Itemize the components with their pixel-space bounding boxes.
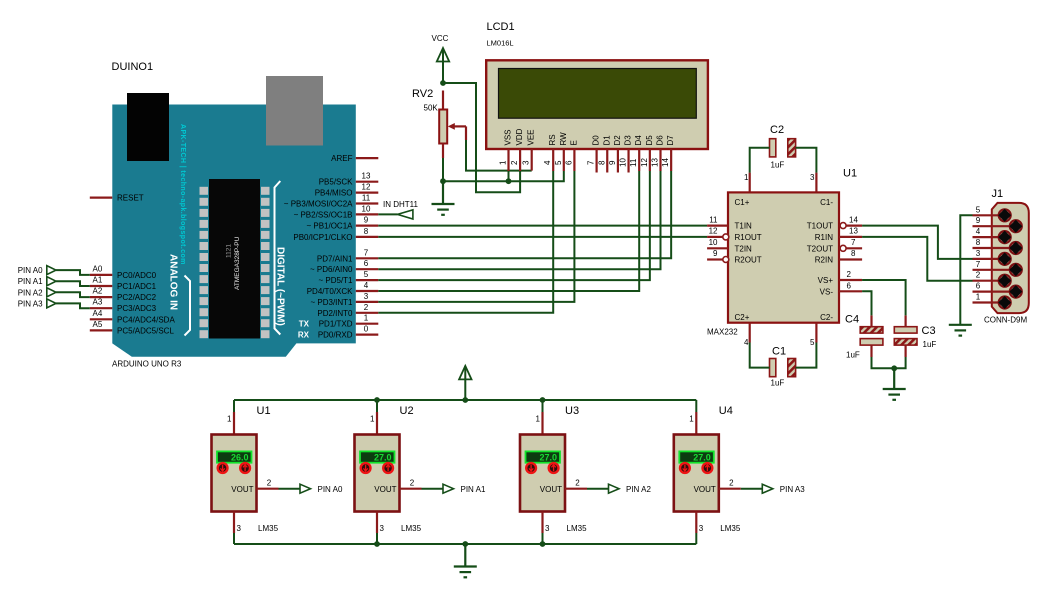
arduino board body (112, 105, 355, 357)
terminal PIN A1 (18, 277, 56, 287)
MAX232 pin 4 stub (749, 323, 751, 343)
svg-text:DUINO1: DUINO1 (112, 61, 154, 73)
LCD body (486, 60, 708, 149)
svg-text:D4: D4 (634, 135, 643, 146)
analog bracket (185, 276, 191, 336)
svg-text:13: 13 (362, 172, 371, 181)
svg-text:~ PD3/INT1: ~ PD3/INT1 (310, 298, 353, 307)
wire U1 VOUT to terminal (279, 488, 301, 490)
svg-text:LM35: LM35 (401, 524, 422, 533)
svg-text:PIN A1: PIN A1 (461, 485, 486, 494)
wire PIN A3 to arduino A3 (56, 303, 90, 308)
svg-text:RX: RX (298, 331, 310, 340)
LCD pin stubs (509, 149, 672, 173)
svg-text:11: 11 (362, 194, 371, 203)
svg-text:RESET: RESET (117, 194, 144, 203)
wire C4 bottom to ground node (872, 357, 895, 368)
terminal PIN A2 output (609, 484, 652, 494)
svg-text:VSS: VSS (504, 129, 513, 145)
DB9 pin stubs (973, 215, 1016, 302)
svg-text:27.0: 27.0 (693, 453, 711, 463)
svg-text:3: 3 (545, 524, 550, 533)
svg-text:D1: D1 (602, 135, 611, 146)
svg-text:1: 1 (689, 415, 694, 424)
digital bracket (275, 181, 281, 335)
svg-text:A1: A1 (93, 276, 103, 285)
svg-text:5: 5 (554, 160, 563, 165)
capacitor C4 (845, 314, 883, 360)
arduino right pin labels (284, 154, 353, 340)
arduino right pin stubs (356, 158, 379, 335)
svg-text:D7: D7 (666, 135, 675, 146)
svg-text:VOUT: VOUT (694, 485, 716, 494)
arduino left pin labels (117, 194, 175, 336)
svg-text:1: 1 (976, 293, 981, 302)
svg-text:3: 3 (522, 160, 531, 165)
power jack block (266, 76, 323, 146)
svg-text:12: 12 (709, 227, 718, 236)
svg-text:T1IN: T1IN (735, 222, 753, 231)
svg-text:E: E (569, 140, 578, 145)
svg-text:C1: C1 (772, 346, 786, 358)
svg-text:1: 1 (499, 160, 508, 165)
MAX232 pin number labels (709, 173, 815, 347)
wire MAX232 VS- to C4 (862, 291, 871, 315)
MAX232 pin 10 stub (707, 247, 728, 249)
node VCC junction at RV2 top (440, 80, 446, 86)
svg-text:DIGITAL (~PWM): DIGITAL (~PWM) (274, 247, 285, 326)
wire LM35 bottom ground bus (234, 543, 696, 545)
DB9 body (992, 203, 1029, 313)
svg-text:C2-: C2- (820, 313, 833, 322)
svg-text:PIN A1: PIN A1 (18, 277, 43, 286)
svg-text:6: 6 (564, 160, 573, 165)
svg-text:3: 3 (699, 524, 704, 533)
svg-text:A4: A4 (93, 309, 103, 318)
wire arduino pin5 to LCD D5 (378, 171, 650, 280)
MAX232 pin 13 stub (839, 236, 862, 238)
terminal PIN A1 output (443, 484, 486, 494)
svg-text:LM35: LM35 (258, 524, 279, 533)
wire arduino pin2 to LCD RS (378, 171, 553, 313)
svg-text:2: 2 (267, 479, 272, 488)
svg-text:8: 8 (851, 249, 856, 258)
svg-text:5: 5 (364, 270, 369, 279)
svg-text:8: 8 (364, 227, 369, 236)
svg-text:VEE: VEE (527, 129, 536, 145)
node VCC stem on top bus (462, 397, 468, 403)
terminal PIN A0 output (300, 484, 343, 494)
LCD screen (499, 69, 697, 119)
svg-text:VCC: VCC (432, 34, 449, 43)
node U2 pin1 on top bus (374, 397, 380, 403)
temperature sensor U1 LM35 (212, 400, 279, 544)
MAX232 pin 11 stub (707, 225, 728, 227)
svg-text:J1: J1 (992, 188, 1004, 200)
svg-text:ARDUINO UNO R3: ARDUINO UNO R3 (112, 360, 182, 369)
svg-text:PIN A2: PIN A2 (18, 288, 43, 297)
svg-text:1: 1 (536, 415, 541, 424)
LCD display LCD1 (486, 21, 708, 149)
svg-text:PD7/AIN1: PD7/AIN1 (317, 254, 353, 263)
svg-text:PD4/T0/XCK: PD4/T0/XCK (307, 287, 353, 296)
wire VCC to LCD VDD (443, 83, 520, 192)
MAX232 pin 7 stub with bubble (840, 245, 846, 251)
LCD pin number labels (499, 158, 671, 167)
arduino left pin stubs (90, 198, 113, 331)
svg-text:1: 1 (744, 173, 749, 182)
svg-text:1121: 1121 (226, 244, 233, 258)
node RV2 bottom junction (440, 178, 446, 184)
svg-text:A3: A3 (93, 298, 103, 307)
svg-text:PD1/TXD: PD1/TXD (319, 320, 353, 329)
svg-text:PIN A3: PIN A3 (18, 299, 43, 308)
svg-text:AREF: AREF (331, 154, 352, 163)
wire U4 VOUT to terminal (741, 488, 763, 490)
svg-text:A0: A0 (93, 264, 103, 273)
chip pins left (200, 187, 209, 338)
svg-text:RS: RS (548, 134, 557, 145)
svg-text:PC2/ADC2: PC2/ADC2 (117, 293, 157, 302)
wire LCD VSS down to ground rail (508, 171, 510, 181)
svg-text:3: 3 (976, 249, 981, 258)
wire arduino pin7 to LCD D7 (378, 171, 671, 258)
svg-text:26.0: 26.0 (231, 453, 249, 463)
svg-text:IN DHT11: IN DHT11 (383, 200, 419, 209)
svg-text:12: 12 (362, 183, 371, 192)
svg-text:RW: RW (559, 132, 568, 146)
svg-text:VDD: VDD (515, 128, 524, 145)
capacitor C3 (894, 315, 936, 357)
ground symbol below DB9 (949, 325, 972, 336)
svg-text:PC3/ADC3: PC3/ADC3 (117, 304, 157, 313)
svg-text:~ PB2/SS/OC1B: ~ PB2/SS/OC1B (294, 210, 353, 219)
svg-text:LM016L: LM016L (487, 39, 514, 48)
svg-text:PB4/MISO: PB4/MISO (315, 189, 353, 198)
wire arduino pin3 to LCD E (378, 171, 574, 302)
svg-text:4: 4 (976, 227, 981, 236)
svg-text:1: 1 (370, 415, 375, 424)
terminal PIN A2 (18, 288, 56, 298)
wire MAX232 T1OUT to DB9 pin3 (862, 226, 972, 259)
temperature sensor U2 LM35 (355, 400, 422, 544)
svg-text:2: 2 (510, 160, 519, 165)
arduino pin number labels right side (362, 172, 371, 334)
node U3 pin1 on top bus (540, 397, 546, 403)
svg-text:27.0: 27.0 (374, 453, 392, 463)
svg-text:7: 7 (364, 248, 369, 257)
svg-text:11: 11 (629, 158, 638, 167)
DB9 pin sockets (998, 209, 1022, 309)
svg-text:VOUT: VOUT (231, 485, 253, 494)
wire arduino pin8 to MAX232 R1OUT (378, 236, 707, 238)
svg-text:8: 8 (597, 160, 606, 165)
svg-text:T1OUT: T1OUT (807, 222, 833, 231)
connector J1 CONN-D9M (984, 188, 1029, 325)
chip pins right (261, 187, 270, 338)
svg-text:3: 3 (380, 524, 385, 533)
wire PIN A2 to arduino A2 (56, 292, 90, 297)
svg-text:D5: D5 (645, 135, 654, 146)
svg-text:0: 0 (364, 325, 369, 334)
terminal PIN A3 output (762, 484, 805, 494)
wire MAX232 pin4 to C1 to pin5 (750, 343, 770, 368)
MAX232 pin 9 stub with bubble (707, 258, 723, 260)
temperature sensor U4 LM35 (674, 400, 741, 544)
LCD pin name labels (504, 128, 676, 145)
svg-text:1uF: 1uF (846, 351, 860, 360)
svg-text:ATMEGA328P-PU: ATMEGA328P-PU (234, 236, 241, 290)
svg-text:A2: A2 (93, 287, 103, 296)
MAX232 pin 5 stub (815, 323, 817, 343)
MAX232 pin 6 stub VS- (839, 290, 862, 292)
svg-text:5: 5 (976, 205, 981, 214)
svg-text:C1-: C1- (820, 198, 833, 207)
svg-text:9: 9 (713, 249, 718, 258)
node U3 pin3 on bottom bus (540, 541, 546, 547)
svg-text:U3: U3 (565, 405, 579, 417)
svg-text:1: 1 (227, 415, 232, 424)
svg-text:3: 3 (237, 524, 242, 533)
terminal IN DHT11 (383, 200, 419, 219)
svg-text:6: 6 (847, 282, 852, 291)
svg-text:13: 13 (651, 158, 660, 167)
svg-text:R2OUT: R2OUT (735, 256, 762, 265)
svg-text:R2IN: R2IN (815, 256, 833, 265)
svg-text:MAX232: MAX232 (707, 328, 738, 337)
svg-text:VS-: VS- (820, 287, 834, 296)
svg-text:C2: C2 (770, 124, 784, 136)
svg-text:RV2: RV2 (412, 88, 433, 100)
IC ATMEGA328 chip body (209, 179, 260, 339)
MAX232 pin 1 stub (749, 173, 751, 193)
arduino analog pin number labels left side (93, 264, 103, 329)
wire PIN A1 to arduino A1 (56, 281, 90, 286)
svg-text:9: 9 (976, 216, 981, 225)
ground symbol LM35 bus (454, 544, 477, 577)
potentiometer RV2 (412, 88, 466, 158)
svg-text:9: 9 (364, 216, 369, 225)
wire RV2 bottom to ground rail (442, 158, 444, 181)
MAX232 pin 8 stub (839, 258, 862, 260)
svg-text:R1IN: R1IN (815, 233, 833, 242)
svg-text:TX: TX (299, 320, 310, 329)
svg-text:C2+: C2+ (735, 313, 750, 322)
MAX232 pin 12 stub with bubble (707, 236, 723, 238)
usb connector block (127, 93, 169, 161)
svg-text:U1: U1 (257, 405, 271, 417)
svg-text:PIN A0: PIN A0 (318, 485, 343, 494)
svg-text:~ PB3/MOSI/OC2A: ~ PB3/MOSI/OC2A (284, 200, 353, 209)
svg-text:D6: D6 (656, 135, 665, 146)
svg-text:T2OUT: T2OUT (807, 244, 833, 253)
svg-text:PIN A0: PIN A0 (18, 266, 43, 275)
svg-text:4: 4 (543, 160, 552, 165)
svg-text:2: 2 (575, 479, 580, 488)
svg-text:10: 10 (709, 238, 718, 247)
svg-text:C1+: C1+ (735, 198, 750, 207)
svg-text:14: 14 (661, 158, 670, 167)
svg-text:U2: U2 (400, 405, 414, 417)
svg-text:2: 2 (976, 271, 981, 280)
wire arduino pin10 to DHT11 terminal (378, 213, 397, 215)
svg-text:VOUT: VOUT (540, 485, 562, 494)
svg-text:27.0: 27.0 (539, 453, 557, 463)
svg-text:~ PD5/T1: ~ PD5/T1 (318, 276, 353, 285)
svg-text:2: 2 (729, 479, 734, 488)
svg-text:6: 6 (976, 282, 981, 291)
svg-text:7: 7 (587, 160, 596, 165)
svg-text:PB0/ICP1/CLKO: PB0/ICP1/CLKO (293, 233, 352, 242)
wire U2 VOUT to terminal (422, 488, 444, 490)
svg-text:5: 5 (810, 338, 815, 347)
svg-text:PC1/ADC1: PC1/ADC1 (117, 282, 157, 291)
svg-text:D3: D3 (624, 135, 633, 146)
svg-text:VOUT: VOUT (374, 485, 396, 494)
svg-text:PC0/ADC0: PC0/ADC0 (117, 271, 157, 280)
svg-text:D2: D2 (613, 135, 622, 146)
svg-text:8: 8 (976, 238, 981, 247)
wire ground rail VSS RW (443, 171, 564, 181)
svg-text:1uF: 1uF (771, 161, 785, 170)
MAX232 body (728, 192, 839, 322)
ground symbol below RV2 (432, 181, 455, 215)
svg-text:U1: U1 (843, 168, 857, 180)
svg-text:LM35: LM35 (567, 524, 588, 533)
svg-text:14: 14 (849, 215, 858, 224)
svg-text:11: 11 (709, 215, 718, 224)
svg-text:APK-TECH | techno-apk.blogspot: APK-TECH | techno-apk.blogspot.com (179, 124, 186, 265)
svg-text:PC5/ADC5/SCL: PC5/ADC5/SCL (117, 326, 174, 335)
svg-text:LCD1: LCD1 (487, 21, 515, 33)
svg-text:3: 3 (364, 292, 369, 301)
wire C3 bottom to ground node (894, 357, 905, 368)
DB9 pin number labels (976, 205, 981, 301)
svg-text:~ PD6/AIN0: ~ PD6/AIN0 (310, 265, 353, 274)
wire arduino pin6 to LCD D6 (378, 171, 660, 269)
temperature sensor U3 LM35 (520, 400, 587, 544)
node VSS junction (506, 178, 512, 184)
MAX232 pin 3 stub (815, 173, 817, 193)
svg-text:PD2/INT0: PD2/INT0 (317, 309, 353, 318)
svg-text:LM35: LM35 (720, 524, 741, 533)
wire arduino pin9 to MAX232 T1IN (378, 225, 707, 227)
wire RV2 wiper to LCD VEE (466, 140, 532, 171)
wire U3 VOUT to terminal (587, 488, 609, 490)
wire MAX232 pin1 to C2 to pin3 (750, 148, 770, 173)
svg-text:~ PB1/OC1A: ~ PB1/OC1A (306, 222, 353, 231)
IC U1 MAX232 (707, 168, 857, 337)
svg-text:1uF: 1uF (771, 379, 785, 388)
svg-text:CONN-D9M: CONN-D9M (984, 316, 1027, 325)
capacitor C1 (770, 346, 796, 388)
svg-text:A5: A5 (93, 320, 103, 329)
wire MAX232 R1IN to DB9 pin2 (862, 237, 972, 281)
svg-text:10: 10 (362, 204, 371, 213)
ground symbol below C3 C4 (883, 368, 906, 400)
svg-text:ANALOG IN: ANALOG IN (168, 254, 179, 310)
svg-text:T2IN: T2IN (735, 244, 753, 253)
wire DB9 pin5 to ground (960, 215, 972, 324)
svg-text:6: 6 (364, 259, 369, 268)
wire LM35 top supply bus (234, 399, 696, 401)
terminal PIN A3 (18, 299, 56, 309)
svg-text:12: 12 (640, 158, 649, 167)
node ground stem on bottom bus (462, 541, 468, 547)
wire MAX232 VS+ to C3 (862, 280, 906, 315)
svg-text:50K: 50K (424, 104, 439, 113)
svg-text:VS+: VS+ (818, 276, 834, 285)
svg-text:2: 2 (364, 303, 369, 312)
MAX232 pin name labels (735, 198, 762, 322)
svg-text:10: 10 (619, 158, 628, 167)
MAX232 pin 2 stub VS+ (839, 279, 862, 281)
power VCC symbol top (432, 34, 450, 83)
node U2 pin3 on bottom bus (374, 541, 380, 547)
power VCC symbol LM35 bus (459, 366, 471, 400)
svg-text:C3: C3 (922, 325, 936, 337)
svg-text:PIN A3: PIN A3 (780, 485, 805, 494)
node C3 C4 ground junction (891, 365, 897, 371)
terminal PIN A0 (18, 266, 56, 276)
svg-text:C4: C4 (845, 314, 859, 326)
svg-text:13: 13 (849, 227, 858, 236)
MAX232 pin 14 stub with bubble (840, 223, 846, 229)
svg-text:R1OUT: R1OUT (735, 233, 762, 242)
svg-text:PIN A2: PIN A2 (626, 485, 651, 494)
svg-text:PC4/ADC4/SDA: PC4/ADC4/SDA (117, 315, 175, 324)
svg-text:2: 2 (847, 270, 852, 279)
wire arduino pin4 to LCD D4 (378, 171, 639, 291)
svg-text:U4: U4 (719, 405, 733, 417)
svg-text:D0: D0 (592, 135, 601, 146)
svg-text:4: 4 (744, 338, 749, 347)
svg-text:PB5/SCK: PB5/SCK (319, 178, 353, 187)
svg-text:PD0/RXD: PD0/RXD (318, 331, 353, 340)
svg-text:1uF: 1uF (923, 340, 937, 349)
svg-text:4: 4 (364, 281, 369, 290)
arduino module DUINO1 (112, 61, 356, 369)
svg-text:7: 7 (851, 238, 856, 247)
svg-text:3: 3 (810, 173, 815, 182)
capacitor C2 (770, 124, 796, 170)
svg-text:9: 9 (608, 160, 617, 165)
wire PIN A0 to arduino A0 (56, 270, 90, 275)
svg-text:1: 1 (364, 314, 369, 323)
svg-text:7: 7 (976, 260, 981, 269)
svg-text:2: 2 (410, 479, 415, 488)
